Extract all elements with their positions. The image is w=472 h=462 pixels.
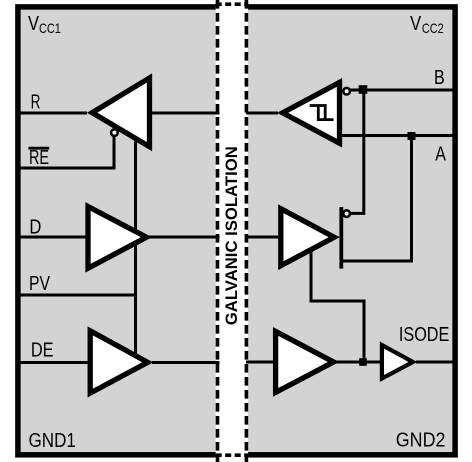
svg-text:B: B [434, 67, 445, 89]
wire B line [349, 89, 455, 92]
wire RE input [18, 133, 114, 168]
svg-text:GALVANIC ISOLATION: GALVANIC ISOLATION [223, 146, 241, 325]
wire left enable vertical R to DE [134, 138, 137, 354]
wire isolation to U5 driver input [246, 236, 279, 239]
U5 output bar [339, 207, 343, 269]
driver U5 triangle (bus side) [281, 209, 334, 266]
svg-text:V: V [410, 13, 422, 35]
isolation dashed border top [216, 2, 249, 6]
svg-text:DE: DE [31, 340, 54, 362]
wire R receiver input from isolation [150, 112, 220, 115]
junction on ISODE line [359, 358, 367, 366]
isolation dashed border right [245, 0, 249, 462]
wire D input [18, 236, 88, 239]
wire PV input [18, 294, 136, 297]
svg-text:R: R [31, 92, 41, 114]
svg-text:GND2: GND2 [396, 430, 446, 452]
wire isolation to U6 driver input [246, 361, 277, 364]
svg-text:V: V [28, 13, 40, 35]
svg-text:A: A [435, 143, 446, 165]
wire R output to left border [18, 112, 87, 115]
wire DE driver output to isolation [152, 361, 220, 364]
wire U7 buffer output to border [416, 361, 455, 364]
svg-text:GND1: GND1 [29, 430, 76, 452]
driver U2 triangle (D) [88, 207, 147, 269]
wire U6 output to ISODE [336, 361, 382, 364]
wire B junction to U5 enable bubble [349, 90, 364, 213]
driver U3 triangle (DE) [90, 331, 148, 393]
buffer U7 small triangle (ISODE) [382, 345, 413, 379]
wire isolation to U4 receiver tip [246, 112, 278, 115]
svg-text:ISODE: ISODE [399, 324, 449, 346]
svg-text:RE: RE [29, 147, 49, 169]
bubble on U5 enable [343, 210, 350, 217]
bubble on U4 input (B) [343, 88, 350, 95]
wire A line [340, 134, 455, 137]
wire DE input [18, 361, 90, 364]
driver U6 triangle (bus side, DE path) [276, 331, 334, 392]
wire D driver output to isolation [149, 236, 220, 239]
isolation dashed border bottom [216, 453, 249, 457]
svg-text:D: D [29, 217, 41, 239]
wire U5 output to A junction [343, 136, 412, 262]
receiver U1 triangle (R) [92, 78, 149, 147]
junction on B line [359, 85, 368, 94]
receiver U4 triangle (bus side, schmitt) [283, 82, 340, 143]
svg-text:CC1: CC1 [39, 20, 61, 36]
galvanic isolation white strip [216, 0, 248, 462]
svg-text:CC2: CC2 [422, 20, 444, 36]
bubble on U1 enable [111, 129, 118, 136]
junction on A line [408, 132, 416, 140]
schmitt hysteresis symbol [310, 106, 334, 120]
wire U5 bottom enable to ISODE junction [311, 250, 364, 362]
svg-text:PV: PV [29, 273, 51, 295]
isolation dashed border left [216, 0, 220, 462]
